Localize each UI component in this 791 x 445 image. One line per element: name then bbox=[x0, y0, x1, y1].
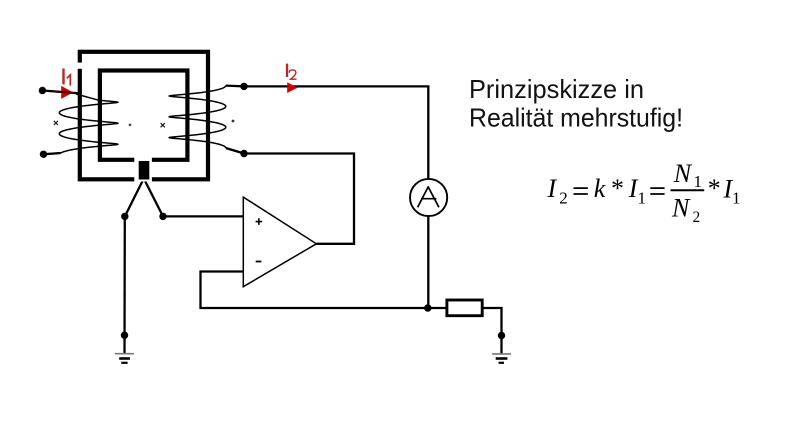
terminal dot primary top bbox=[39, 87, 46, 94]
junction dot right ground bbox=[498, 332, 505, 339]
svg-text:k: k bbox=[594, 174, 606, 203]
wire hall sensor to left junction bbox=[125, 179, 144, 217]
svg-text:1: 1 bbox=[694, 172, 703, 191]
op-amp minus sign bbox=[256, 261, 262, 263]
op-amp plus sign bbox=[256, 218, 263, 225]
svg-text:*: * bbox=[610, 174, 623, 203]
svg-text:N: N bbox=[673, 159, 693, 188]
wire I2 top run and ammeter branch down to junction bbox=[244, 86, 428, 308]
terminal dot secondary bottom bbox=[240, 150, 247, 157]
ground left bbox=[115, 354, 134, 363]
op-amp U1 triangle bbox=[243, 197, 316, 287]
wire primary top terminal lead bbox=[42, 91, 80, 94]
winding N1 primary coil bbox=[59, 100, 118, 153]
wire secondary bottom terminal lead bbox=[226, 148, 244, 154]
wire op-amp output to secondary bottom terminal bbox=[244, 154, 354, 244]
current arrow I2 bbox=[287, 82, 297, 93]
polarity dot right outside bbox=[232, 120, 235, 123]
wire primary winding entry bbox=[76, 94, 99, 100]
polarity dot left window bbox=[129, 124, 132, 127]
svg-text:1: 1 bbox=[732, 188, 741, 207]
wire overlay through arrow I1 bbox=[52, 91, 72, 93]
label I2 bbox=[286, 64, 288, 77]
ground right bbox=[492, 354, 511, 363]
resistor R1 bbox=[447, 300, 482, 316]
polarity mark x right window bbox=[161, 123, 165, 127]
terminal dot secondary top bbox=[240, 83, 247, 90]
wire hall sensor to right junction bbox=[144, 179, 163, 217]
svg-text:2: 2 bbox=[559, 188, 568, 207]
wire feedback from inverting input to current junction bbox=[201, 272, 428, 309]
wire resistor right lead to ground bbox=[483, 308, 502, 354]
formula I2 = k*I1 = N1/N2*I1 bbox=[547, 159, 741, 226]
wire resistor left lead bbox=[428, 307, 446, 309]
label background break on core edge bbox=[75, 63, 85, 69]
transformer core inner window bbox=[100, 71, 187, 160]
core air gap bbox=[134, 156, 152, 182]
label I1 bbox=[62, 69, 64, 85]
terminal dot primary bottom bbox=[40, 151, 47, 158]
wire primary bottom terminal lead bbox=[44, 153, 61, 154]
junction dot hall right bbox=[159, 213, 166, 220]
svg-text:Prinzipskizze in: Prinzipskizze in bbox=[469, 76, 644, 104]
junction dot current node bbox=[424, 304, 431, 311]
ammeter letter A bbox=[418, 187, 439, 207]
wire noninverting input from hall sensor junction bbox=[163, 215, 243, 217]
hall sensor in gap bbox=[139, 161, 150, 180]
current arrow I1 bbox=[61, 86, 73, 99]
wire left junction down to ground bbox=[123, 216, 126, 353]
svg-text:1: 1 bbox=[638, 188, 647, 207]
wire secondary top terminal lead bbox=[226, 84, 244, 87]
svg-text:2: 2 bbox=[693, 209, 701, 226]
ammeter A1 circle bbox=[410, 179, 447, 216]
svg-text:Realität mehrstufig!: Realität mehrstufig! bbox=[469, 104, 683, 132]
svg-text:*: * bbox=[707, 174, 720, 203]
svg-text:I: I bbox=[547, 174, 558, 203]
junction dot left ground wire bbox=[121, 332, 128, 339]
transformer core outer bbox=[80, 52, 208, 180]
svg-text:N: N bbox=[671, 194, 691, 223]
polarity mark x left outside bbox=[54, 121, 58, 125]
winding N2 secondary coil bbox=[169, 86, 226, 148]
junction dot hall left bbox=[121, 213, 128, 220]
